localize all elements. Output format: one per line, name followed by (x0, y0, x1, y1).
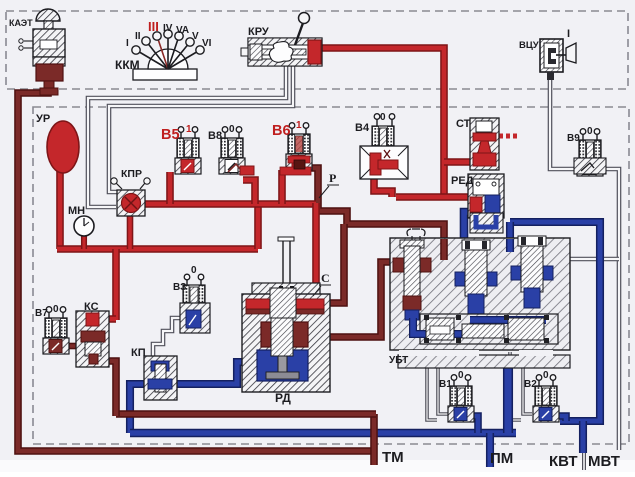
wire maroon TM drop (370, 414, 378, 465)
svg-text:ТМ: ТМ (382, 449, 404, 466)
wire red V8 leg (243, 180, 255, 204)
dashed frame: top section box (6, 11, 628, 89)
component KRU hand brake valve (241, 13, 322, 67)
wire blue PM drop (486, 433, 494, 467)
wire red UR down (56, 170, 64, 249)
component KS (76, 311, 109, 367)
component MN pressure gauge (74, 216, 94, 236)
dashed frame: main section box (33, 107, 629, 444)
svg-text:ВЦУ: ВЦУ (519, 40, 539, 51)
wire gray pipe V9 down right to MVT (602, 169, 619, 450)
svg-text:В4: В4 (355, 122, 370, 134)
wire maroon V7 to KS (66, 343, 78, 350)
wire red MN stem (81, 234, 87, 249)
component protection valve under RED (470, 213, 503, 233)
component ST trailer valve (470, 118, 499, 170)
wire blue top right bus to KVT corner (510, 222, 600, 421)
svg-text:КРУ: КРУ (248, 26, 269, 38)
wire red to KS (112, 249, 120, 320)
svg-text:МВТ: МВТ (588, 453, 620, 470)
wire blue KVT drop (579, 421, 587, 453)
valve V6 port details (296, 136, 303, 152)
wire red lower bus (57, 245, 258, 253)
svg-text:0: 0 (380, 112, 386, 123)
valve V8 red port detail (240, 166, 254, 175)
wire gray pipe UBT right port (568, 257, 619, 262)
svg-text:VA: VA (176, 25, 189, 36)
wire gray pipe VCU to V9 (550, 71, 576, 169)
svg-text:II: II (135, 31, 141, 42)
wire gray pipe KP to V3 (153, 318, 181, 357)
wire red V6 left leg (278, 170, 286, 204)
wire maroon R line V6 to UBT (303, 168, 444, 260)
svg-text:I: I (567, 28, 570, 40)
wire blue PM bus (130, 429, 516, 438)
svg-text:III: III (148, 19, 159, 34)
valve V6 (286, 123, 312, 170)
svg-text:I: I (126, 38, 129, 49)
valve V7 (43, 307, 69, 354)
wire blue UBT big drop (503, 364, 513, 433)
wire red upper bus (142, 200, 316, 208)
component KAET brake valve (19, 9, 65, 95)
svg-text:1: 1 (296, 120, 302, 131)
wire blue into UBT right valve (506, 222, 514, 252)
svg-text:0: 0 (53, 304, 59, 315)
svg-text:V: V (192, 31, 199, 42)
wire gray pipe UBT to V2 box (510, 352, 521, 420)
valve V2 (533, 375, 559, 422)
svg-text:РЕД: РЕД (451, 175, 474, 187)
wire maroon KAET to TM bus (18, 82, 375, 451)
svg-text:ККМ: ККМ (115, 58, 140, 72)
wire gray pipe KVT lower stub (582, 452, 586, 470)
valve V4 (360, 114, 408, 179)
svg-text:КВТ: КВТ (549, 453, 578, 470)
wire red branch to ST (444, 158, 470, 166)
svg-text:ВЗ: ВЗ (173, 282, 186, 293)
svg-text:В5: В5 (161, 127, 180, 143)
valve V3 (180, 274, 210, 333)
component KPR protection valve (111, 178, 150, 216)
wire gray pipe V1 enclosure (438, 368, 448, 414)
svg-text:0: 0 (191, 265, 197, 276)
svg-text:0: 0 (229, 124, 235, 135)
component UBT brake unit block (390, 229, 570, 368)
svg-text:С: С (321, 271, 330, 285)
svg-text:КПР: КПР (121, 168, 142, 180)
component KP (144, 356, 177, 400)
svg-text:0: 0 (458, 370, 464, 381)
wire blue RED-valve to UBT (464, 212, 484, 288)
wire blue V2 leg (549, 416, 566, 421)
component RED pressure reducer (468, 174, 504, 218)
wire gray pipe UBT to V1 box (427, 352, 437, 420)
svg-text:VI: VI (202, 38, 212, 49)
wire red to RED-valve (396, 193, 470, 201)
wire maroon RD to UBT left (308, 262, 392, 337)
wire gray pipe KRU to KPR inner (109, 66, 293, 192)
wire red ST dashed output (499, 134, 517, 139)
svg-text:КП: КП (131, 347, 146, 359)
wire red KRU output (320, 48, 444, 197)
svg-text:В1: В1 (439, 379, 452, 390)
component KKM gear selector (132, 30, 204, 80)
wire red riser (254, 203, 262, 249)
component RD brake force regulator (242, 237, 330, 392)
svg-text:В6: В6 (272, 123, 291, 139)
valve V9 (577, 129, 603, 176)
wire red C line to RD (312, 203, 320, 300)
wire maroon middle bus (116, 410, 376, 418)
svg-text:МН: МН (68, 205, 85, 217)
svg-text:Р: Р (329, 171, 336, 185)
wire red KPR stem (127, 214, 134, 249)
wire maroon KS down (100, 361, 116, 416)
svg-text:В9: В9 (567, 133, 580, 144)
component UR reservoir (47, 121, 79, 173)
svg-text:В7: В7 (35, 308, 48, 319)
wire maroon stub into UBT (440, 239, 448, 260)
svg-text:0: 0 (587, 126, 593, 137)
wire blue V1 leg (463, 416, 478, 433)
component VCU (540, 39, 576, 80)
wire red V4 leg (374, 176, 392, 197)
wire red V5 leg (166, 172, 174, 204)
wire blue KP left down (130, 384, 147, 433)
svg-text:1: 1 (186, 124, 192, 135)
wire blue KP to RD (173, 362, 244, 384)
svg-text:РД: РД (275, 391, 291, 405)
wire red KS input (95, 315, 116, 323)
svg-text:В2: В2 (524, 379, 537, 390)
wire gray pipe V2 enclosure (523, 368, 532, 414)
svg-text:СТ: СТ (456, 118, 471, 130)
svg-text:УР: УР (36, 113, 50, 125)
svg-text:УБТ: УБТ (389, 355, 408, 366)
valve V1 (448, 375, 474, 422)
svg-text:ПМ: ПМ (490, 450, 513, 467)
svg-text:КС: КС (84, 301, 99, 313)
wire maroon branch to RD right (330, 224, 344, 303)
wire gray pipe KRU to KPR (88, 66, 286, 207)
svg-text:0: 0 (543, 370, 549, 381)
svg-text:КАЭТ: КАЭТ (9, 18, 33, 28)
valve V9 bottom box (574, 158, 606, 174)
svg-text:IV: IV (163, 23, 173, 34)
wire blue stub into UBT right valve (506, 239, 514, 252)
svg-text:В8: В8 (208, 130, 222, 142)
valve V5 (175, 127, 201, 174)
valve V8 (219, 127, 245, 174)
